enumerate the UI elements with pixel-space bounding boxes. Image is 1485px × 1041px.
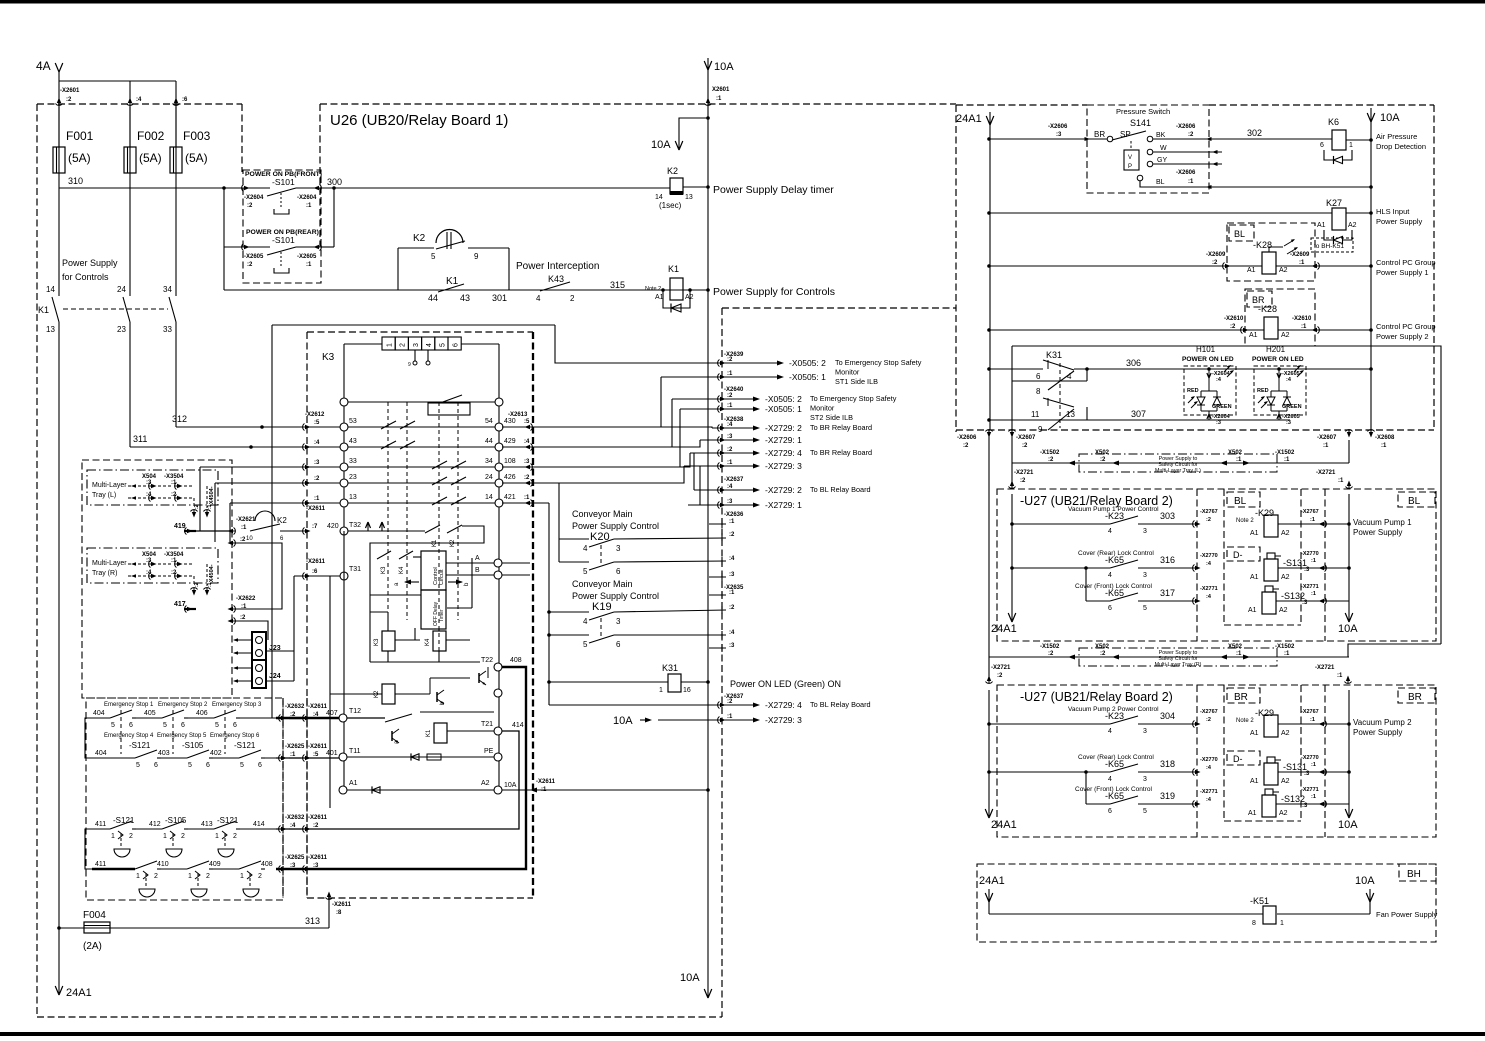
svg-text:-X2621: -X2621 (236, 517, 256, 523)
svg-text::1: :1 (241, 604, 247, 610)
svg-text:-K51: -K51 (1250, 896, 1269, 906)
svg-text:to BH-K51: to BH-K51 (1314, 243, 1344, 250)
svg-text:312: 312 (172, 414, 187, 424)
svg-text:-X1502: -X1502 (1275, 644, 1295, 650)
svg-text:-K23: -K23 (1105, 711, 1124, 721)
svg-text:4: 4 (583, 544, 588, 553)
svg-text:Note 2: Note 2 (1236, 518, 1254, 524)
svg-text::4: :4 (729, 556, 735, 562)
svg-text:-X2606: -X2606 (957, 435, 977, 441)
svg-text:-X0505: 2: -X0505: 2 (789, 358, 826, 368)
svg-text:4: 4 (426, 343, 433, 347)
svg-text::3: :3 (1304, 567, 1310, 573)
svg-text:A2: A2 (1281, 530, 1290, 537)
svg-text:F001: F001 (66, 129, 94, 143)
svg-text::2: :2 (1100, 651, 1106, 657)
svg-text:To BL Relay Board: To BL Relay Board (810, 485, 871, 494)
svg-text::1: :1 (314, 496, 320, 502)
svg-text:404: 404 (93, 710, 105, 717)
svg-text:RED: RED (1187, 388, 1199, 394)
svg-text:306: 306 (1126, 358, 1141, 368)
svg-text:Multi-Layer Tray (L): Multi-Layer Tray (L) (1155, 468, 1201, 474)
svg-text:6: 6 (1036, 372, 1041, 381)
svg-text:K2: K2 (277, 516, 287, 525)
svg-text:-X2604: -X2604 (244, 195, 264, 201)
svg-text::1: :1 (1284, 651, 1290, 657)
svg-text:Air Pressure: Air Pressure (1376, 132, 1417, 141)
svg-text:43: 43 (349, 438, 357, 445)
svg-text::1: :1 (241, 525, 247, 531)
svg-text:-X2767: -X2767 (1301, 709, 1319, 715)
svg-text:3: 3 (1143, 528, 1147, 535)
svg-text:5: 5 (188, 762, 192, 769)
svg-text:420: 420 (327, 523, 339, 530)
svg-text::1: :1 (306, 203, 312, 209)
svg-text:BL: BL (1408, 496, 1421, 507)
svg-text:Fan Power Supply: Fan Power Supply (1376, 910, 1438, 919)
svg-text:V: V (1128, 155, 1132, 161)
svg-text:To BR Relay Board: To BR Relay Board (810, 448, 872, 457)
svg-text:Emergency Stop 2: Emergency Stop 2 (158, 702, 208, 708)
svg-text:1: 1 (136, 873, 140, 880)
svg-text:311: 311 (133, 434, 147, 444)
svg-text::2: :2 (963, 443, 969, 449)
svg-text:8: 8 (1036, 387, 1041, 396)
svg-text::2: :2 (314, 476, 320, 482)
svg-text:-X2609: -X2609 (1206, 252, 1226, 258)
svg-text:To BL Relay Board: To BL Relay Board (810, 700, 871, 709)
svg-text::1: :1 (541, 787, 547, 793)
svg-text:Vacuum Pump 2: Vacuum Pump 2 (1353, 718, 1412, 727)
svg-text::1: :1 (1323, 443, 1329, 449)
svg-text::1: :1 (716, 96, 722, 102)
svg-text::4: :4 (290, 823, 296, 829)
svg-text::4: :4 (524, 439, 530, 445)
svg-text:-X2625: -X2625 (285, 855, 305, 861)
svg-text:5: 5 (1143, 808, 1147, 815)
svg-text:BK: BK (1156, 132, 1166, 139)
svg-text:K1: K1 (38, 305, 49, 315)
svg-text:A2: A2 (1281, 332, 1290, 339)
svg-text:X502: X502 (1095, 450, 1110, 456)
svg-text:4: 4 (583, 617, 588, 626)
svg-text:-X2606: -X2606 (1176, 170, 1196, 176)
svg-text:2: 2 (400, 343, 407, 347)
svg-text:2: 2 (181, 833, 185, 840)
svg-text::2: :2 (1100, 457, 1106, 463)
svg-text:K43: K43 (548, 274, 564, 284)
svg-text:419: 419 (174, 523, 186, 530)
svg-text:H201: H201 (1266, 345, 1286, 354)
svg-text:To BR Relay Board: To BR Relay Board (810, 423, 872, 432)
svg-text::5: :5 (524, 419, 530, 425)
svg-text::1: :1 (1338, 478, 1344, 484)
svg-text::1: :1 (1311, 794, 1316, 800)
svg-text:-X2605: -X2605 (297, 254, 317, 260)
svg-text:4: 4 (536, 294, 541, 303)
svg-text::2: :2 (727, 699, 733, 705)
svg-text::1: :1 (1311, 591, 1316, 597)
svg-text:1: 1 (215, 833, 219, 840)
svg-text:-X2770: -X2770 (1200, 553, 1218, 559)
svg-text:Power Supply 1: Power Supply 1 (1376, 268, 1429, 277)
svg-text:24A1: 24A1 (979, 875, 1005, 887)
svg-text:24: 24 (485, 474, 493, 481)
svg-text:A1: A1 (1247, 267, 1256, 274)
svg-text:3: 3 (413, 343, 420, 347)
svg-text:4A: 4A (36, 59, 51, 73)
svg-text:(5A): (5A) (139, 151, 162, 165)
svg-text::2: :2 (997, 673, 1003, 679)
svg-text:313: 313 (305, 916, 320, 926)
svg-text:Multi-Layer: Multi-Layer (92, 482, 127, 489)
svg-text:10A: 10A (1355, 875, 1375, 887)
svg-text::3: :3 (729, 643, 735, 649)
svg-text:1: 1 (387, 343, 394, 347)
svg-text:T31: T31 (349, 566, 361, 573)
svg-text::3: :3 (1216, 420, 1221, 426)
svg-text:RED: RED (1257, 388, 1269, 394)
svg-text:300: 300 (327, 177, 342, 187)
svg-text:(1sec): (1sec) (659, 201, 682, 210)
svg-text:-X2721: -X2721 (1316, 470, 1336, 476)
svg-text::1: :1 (729, 519, 735, 525)
svg-text:5: 5 (1143, 605, 1147, 612)
svg-text:301: 301 (492, 293, 507, 303)
svg-text:F003: F003 (183, 129, 211, 143)
svg-text:414: 414 (253, 821, 265, 828)
svg-text:A2: A2 (1348, 222, 1357, 229)
svg-text:5: 5 (111, 722, 115, 729)
svg-text:108: 108 (504, 458, 516, 465)
svg-text:Emergency Stop 3: Emergency Stop 3 (212, 702, 262, 708)
svg-text:-X2770: -X2770 (1301, 551, 1319, 557)
svg-text:-X2632: -X2632 (285, 815, 305, 821)
svg-text:4: 4 (1108, 728, 1112, 735)
svg-text:406: 406 (196, 710, 208, 717)
svg-text::1: :1 (524, 495, 530, 501)
svg-text::2: :2 (66, 97, 72, 103)
svg-text:A1: A1 (1250, 778, 1259, 785)
svg-text:4: 4 (1108, 572, 1112, 579)
svg-text:-K28: -K28 (1258, 304, 1277, 314)
svg-text::1: :1 (1337, 673, 1343, 679)
svg-text::1: :1 (207, 582, 213, 587)
svg-text:317: 317 (1160, 588, 1175, 598)
svg-text:426: 426 (504, 474, 516, 481)
svg-text:10A: 10A (1380, 112, 1400, 124)
svg-text::2: :2 (1020, 478, 1026, 484)
svg-text::3: :3 (1304, 771, 1310, 777)
svg-text::3: :3 (1056, 132, 1062, 138)
svg-text:-X2729: 4: -X2729: 4 (765, 700, 802, 710)
svg-text:54: 54 (485, 418, 493, 425)
svg-text:6: 6 (206, 762, 210, 769)
svg-text:Emergency Stop 1: Emergency Stop 1 (104, 702, 154, 708)
svg-text:33: 33 (349, 458, 357, 465)
svg-text:2: 2 (206, 873, 210, 880)
svg-text:T11: T11 (349, 748, 361, 755)
svg-text::1: :1 (1310, 517, 1315, 523)
svg-text::2: :2 (727, 447, 733, 453)
svg-text::2: :2 (240, 537, 246, 543)
svg-text:F002: F002 (137, 129, 165, 143)
svg-text:-X0505: 1: -X0505: 1 (765, 404, 802, 414)
svg-text:-S121: -S121 (234, 741, 256, 750)
svg-text:(2A): (2A) (83, 941, 102, 952)
svg-text:6: 6 (1108, 808, 1112, 815)
svg-text:K1: K1 (668, 264, 679, 274)
svg-text:A2: A2 (1281, 778, 1290, 785)
svg-text:-X2604: -X2604 (297, 195, 317, 201)
svg-text:1: 1 (188, 873, 192, 880)
svg-text:409: 409 (209, 861, 221, 868)
svg-text:B: B (475, 567, 480, 574)
svg-text:GREEN: GREEN (1212, 404, 1232, 410)
svg-text::3: :3 (1302, 600, 1308, 606)
svg-text:-X2612: -X2612 (305, 412, 325, 418)
svg-text:J24: J24 (269, 673, 281, 680)
svg-text:Note 2: Note 2 (645, 286, 661, 292)
svg-text:Power Supply Delay timer: Power Supply Delay timer (713, 184, 834, 196)
svg-text::2: :2 (313, 823, 319, 829)
svg-text:U26 (UB20/Relay Board 1): U26 (UB20/Relay Board 1) (330, 112, 508, 129)
svg-text:A1: A1 (1248, 607, 1257, 614)
svg-text:A2: A2 (1281, 730, 1290, 737)
svg-text:Circuit: Circuit (439, 569, 445, 585)
svg-text:-X2607: -X2607 (1016, 435, 1036, 441)
svg-text:316: 316 (1160, 555, 1175, 565)
svg-text:K3: K3 (322, 352, 335, 363)
svg-text::1: :1 (1236, 457, 1242, 463)
svg-text:D-: D- (1233, 550, 1243, 560)
svg-text:Vacuum Pump 1: Vacuum Pump 1 (1353, 518, 1412, 527)
svg-text:K4: K4 (425, 638, 431, 646)
svg-text:-X2609: -X2609 (1290, 252, 1310, 258)
svg-text::1: :1 (306, 262, 312, 268)
svg-text:Conveyor Main: Conveyor Main (572, 509, 633, 519)
svg-text::1: :1 (1310, 717, 1315, 723)
svg-text:6: 6 (616, 640, 621, 649)
svg-text::2: :2 (729, 605, 735, 611)
svg-text:6: 6 (154, 762, 158, 769)
svg-text::1: :1 (1236, 651, 1242, 657)
svg-text:-X2604: -X2604 (1212, 414, 1231, 420)
svg-text:1: 1 (1349, 142, 1353, 149)
svg-text:43: 43 (460, 293, 470, 303)
svg-text:K4: K4 (399, 566, 405, 574)
svg-text:BL: BL (1234, 229, 1245, 239)
svg-text::2: :2 (194, 504, 200, 509)
svg-text:K27: K27 (1326, 198, 1342, 208)
svg-text:-X2610: -X2610 (1292, 316, 1312, 322)
svg-text:5: 5 (439, 343, 446, 347)
svg-text:3: 3 (1143, 776, 1147, 783)
svg-text:5: 5 (240, 762, 244, 769)
svg-text:412: 412 (149, 821, 161, 828)
svg-text::2: :2 (729, 532, 735, 538)
svg-text::1: :1 (1301, 324, 1307, 330)
svg-text:A2: A2 (1281, 574, 1290, 581)
svg-text:A2: A2 (1279, 607, 1288, 614)
svg-text:-X2729: 2: -X2729: 2 (765, 423, 802, 433)
svg-text:(5A): (5A) (68, 151, 91, 165)
svg-text::3: :3 (1302, 803, 1308, 809)
svg-text:Multi-Layer Tray (R): Multi-Layer Tray (R) (1155, 662, 1202, 668)
svg-text::1: :1 (1188, 179, 1194, 185)
svg-text:BL: BL (1234, 496, 1247, 507)
svg-text:-X2729: 4: -X2729: 4 (765, 448, 802, 458)
svg-text:1: 1 (240, 873, 244, 880)
svg-text:Emergency Stop 5: Emergency Stop 5 (157, 733, 207, 739)
svg-text::4: :4 (727, 422, 733, 428)
svg-text::1: :1 (727, 403, 733, 409)
svg-text:14: 14 (655, 194, 663, 201)
svg-text:14: 14 (46, 285, 55, 294)
svg-text::3: :3 (290, 863, 296, 869)
svg-text:H101: H101 (1196, 345, 1216, 354)
svg-text::5: :5 (314, 420, 320, 426)
svg-text:-X2625: -X2625 (285, 744, 305, 750)
svg-text:-K65: -K65 (1105, 791, 1124, 801)
svg-text:-X2771: -X2771 (1200, 586, 1218, 592)
svg-text:A2: A2 (1279, 267, 1288, 274)
svg-text:-X2729: 3: -X2729: 3 (765, 461, 802, 471)
svg-text:for Controls: for Controls (62, 272, 109, 282)
svg-text:BR: BR (1408, 692, 1422, 703)
svg-text:44: 44 (428, 293, 438, 303)
svg-text:-X2721: -X2721 (1315, 665, 1335, 671)
svg-text:-X2606: -X2606 (1176, 124, 1196, 130)
svg-text:BR: BR (1234, 692, 1248, 703)
svg-text::4: :4 (727, 484, 733, 490)
svg-text:5: 5 (215, 722, 219, 729)
svg-text:-X2729: 1: -X2729: 1 (765, 500, 802, 510)
svg-text:-K65: -K65 (1105, 555, 1124, 565)
svg-text:A1: A1 (1250, 730, 1259, 737)
svg-text:307: 307 (1131, 409, 1146, 419)
svg-text::3: :3 (313, 863, 319, 869)
svg-text:K6: K6 (1328, 117, 1339, 127)
svg-text:-S121: -S121 (129, 741, 151, 750)
svg-text::4: :4 (313, 712, 319, 718)
svg-text:407: 407 (326, 710, 338, 717)
svg-text:421: 421 (504, 494, 516, 501)
svg-text:Power Interception: Power Interception (516, 261, 599, 272)
svg-text:A2: A2 (1279, 810, 1288, 817)
svg-text:-X2770: -X2770 (1301, 755, 1319, 761)
svg-text::1: :1 (727, 460, 733, 466)
svg-text::2: :2 (247, 203, 253, 209)
svg-text:-X2606: -X2606 (1048, 124, 1068, 130)
svg-text::3: :3 (729, 572, 735, 578)
svg-text:Conveyor Main: Conveyor Main (572, 579, 633, 589)
svg-text:A1: A1 (1248, 810, 1257, 817)
svg-text:BR: BR (1094, 130, 1105, 139)
svg-text:10A: 10A (714, 61, 734, 73)
svg-text:-X2611: -X2611 (306, 506, 326, 512)
svg-text:4: 4 (1108, 528, 1112, 535)
svg-text:10A: 10A (680, 972, 700, 984)
svg-text::2: :2 (1022, 443, 1028, 449)
svg-text:S141: S141 (1130, 118, 1151, 128)
svg-text:K2: K2 (413, 233, 426, 244)
svg-text:24: 24 (117, 285, 126, 294)
svg-text:1: 1 (659, 687, 663, 694)
svg-text:-X2767: -X2767 (1200, 509, 1218, 515)
svg-text:T12: T12 (349, 708, 361, 715)
svg-text:Emergency Stop 4: Emergency Stop 4 (104, 733, 154, 739)
svg-text::2: :2 (1230, 324, 1236, 330)
svg-text:6: 6 (1320, 142, 1324, 149)
svg-text::2: :2 (727, 357, 733, 363)
svg-text:411: 411 (95, 861, 106, 868)
svg-text:X502: X502 (1228, 644, 1243, 650)
svg-text:-X2611: -X2611 (308, 815, 328, 821)
svg-text:-K65: -K65 (1105, 588, 1124, 598)
svg-text::1: :1 (1299, 260, 1305, 266)
svg-text:Note 2: Note 2 (1236, 718, 1254, 724)
svg-text:A1: A1 (655, 294, 664, 301)
svg-text:-X1502: -X1502 (1040, 450, 1060, 456)
svg-text:2: 2 (154, 873, 158, 880)
svg-text:K3: K3 (374, 638, 380, 646)
svg-text:2: 2 (233, 833, 237, 840)
svg-text:SP: SP (1120, 130, 1131, 139)
svg-text:-X2771: -X2771 (1200, 789, 1218, 795)
svg-text:408: 408 (261, 861, 273, 868)
svg-text:A1: A1 (1250, 574, 1259, 581)
svg-text:9: 9 (408, 362, 411, 368)
svg-text::1: :1 (207, 504, 213, 509)
svg-text::2: :2 (1212, 260, 1218, 266)
svg-text:414: 414 (512, 722, 524, 729)
svg-text:-X2632: -X2632 (285, 704, 305, 710)
svg-text:10A: 10A (1338, 819, 1358, 831)
svg-text:13: 13 (349, 494, 357, 501)
svg-text:-S101: -S101 (272, 235, 295, 245)
svg-text:A1: A1 (1317, 222, 1326, 229)
svg-text::2: :2 (1188, 132, 1194, 138)
svg-text::2: :2 (1048, 457, 1054, 463)
svg-text:-X2611: -X2611 (332, 902, 352, 908)
svg-text:Control PC Group: Control PC Group (1376, 258, 1436, 267)
svg-text::2: :2 (247, 262, 253, 268)
svg-text:-K23: -K23 (1105, 511, 1124, 521)
svg-text:23: 23 (117, 325, 126, 334)
svg-text::2: :2 (1206, 517, 1211, 523)
svg-text:-X2767: -X2767 (1200, 709, 1218, 715)
svg-text:-X2770: -X2770 (1200, 757, 1218, 763)
svg-text:PE: PE (484, 748, 494, 755)
svg-text:5: 5 (583, 640, 588, 649)
svg-text:Power Supply 2: Power Supply 2 (1376, 332, 1429, 341)
svg-text:-X2611: -X2611 (536, 779, 556, 785)
svg-text:To Emergency Stop Safety: To Emergency Stop Safety (810, 394, 897, 403)
svg-text:To Emergency Stop Safety: To Emergency Stop Safety (835, 358, 922, 367)
svg-text:-X2610: -X2610 (1224, 316, 1244, 322)
svg-text::4: :4 (729, 630, 735, 636)
svg-text:5: 5 (431, 252, 436, 261)
svg-text:411: 411 (95, 821, 106, 828)
svg-text::1: :1 (729, 590, 735, 596)
svg-text:T21: T21 (481, 721, 493, 728)
svg-text:34: 34 (163, 285, 172, 294)
svg-text:5: 5 (583, 567, 588, 576)
svg-text:P: P (1128, 164, 1132, 170)
svg-text:53: 53 (349, 418, 357, 425)
svg-text:POWER ON LED: POWER ON LED (1182, 356, 1234, 363)
